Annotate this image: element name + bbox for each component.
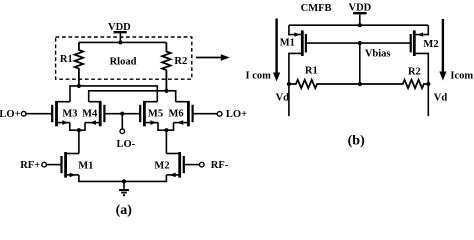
transistor M2 (b)	[411, 25, 439, 84]
current arrow Icom (right)	[439, 19, 473, 82]
node: R1 / out+ junction	[77, 84, 81, 88]
wire: M3/M4 common source to M1 drain	[70, 123, 85, 154]
svg-text:(b): (b)	[348, 134, 365, 149]
resistor R1 (a)	[60, 42, 83, 86]
node: VDD rail junction (a)	[118, 40, 122, 44]
node: right drain / R2 junction	[426, 82, 430, 86]
svg-text:M3: M3	[62, 108, 77, 119]
transistor M4	[82, 101, 104, 126]
svg-text:I com: I com	[246, 70, 272, 81]
svg-text:R2: R2	[408, 66, 421, 77]
wire: gate line M1-M2 (b)	[306, 42, 412, 44]
wire: right Vd output	[427, 84, 429, 116]
resistor R2 (a)	[162, 42, 187, 90]
svg-text:RF-: RF-	[211, 160, 229, 171]
wire: tail rail M1/M2 sources	[79, 175, 166, 182]
svg-text:Vd: Vd	[434, 92, 448, 103]
arrow: output to CMFB	[196, 54, 230, 60]
svg-text:Icom: Icom	[450, 71, 473, 82]
svg-text:RF+: RF+	[20, 160, 40, 171]
transistor M6	[169, 101, 193, 126]
Rload dashed box	[56, 37, 192, 79]
node: gate line / Vbias junction	[358, 41, 362, 45]
node: M3/M4 source junction	[77, 128, 81, 132]
transistor M1 (b)	[280, 25, 306, 84]
VDD supply symbol (b)	[349, 2, 372, 25]
current arrow Icom (left)	[246, 19, 281, 82]
svg-text:R2: R2	[174, 56, 187, 67]
resistor R2 (b)	[360, 66, 429, 88]
wire: left Vd output	[288, 84, 290, 116]
svg-text:M1: M1	[280, 37, 295, 48]
svg-text:CMFB: CMFB	[301, 3, 332, 14]
node: ground junction	[122, 179, 126, 183]
wire: M5/M6 common source to M2 drain	[158, 123, 174, 154]
svg-text:Vbias: Vbias	[365, 49, 391, 60]
svg-text:R1: R1	[60, 54, 73, 65]
node: R2 / out- junction	[164, 89, 168, 93]
terminal RF-	[184, 160, 229, 171]
ground	[119, 181, 129, 195]
resistor R1 (b)	[289, 65, 360, 88]
wire: out- node to M4 and M6 drains	[89, 91, 176, 102]
transistor M3	[52, 101, 77, 126]
terminal RF+	[20, 160, 61, 171]
svg-text:Vd: Vd	[276, 92, 290, 103]
svg-text:LO+: LO+	[226, 109, 247, 120]
wire: LO- gate line M4 to M5	[104, 113, 140, 115]
svg-text:LO+: LO+	[0, 109, 21, 120]
svg-text:(a): (a)	[116, 203, 133, 218]
wire: VDD rail (b)	[289, 24, 428, 26]
node: left drain / R1 junction	[287, 82, 291, 86]
node: LO- junction	[120, 112, 124, 116]
node: M5/M6 source junction	[164, 128, 168, 132]
wire: out+ node to M3 and M5 drains	[70, 86, 157, 102]
svg-text:M2: M2	[154, 161, 169, 172]
svg-text:M5: M5	[148, 108, 163, 119]
wire: VDD rail (a)	[79, 41, 166, 43]
terminal LO+ (right)	[193, 109, 247, 120]
node: Vbias / R1-R2 junction	[358, 82, 362, 86]
VDD supply symbol (a)	[108, 22, 131, 43]
transistor M1	[62, 152, 94, 178]
svg-text:Rload: Rload	[110, 56, 137, 67]
terminal LO+ (left)	[0, 109, 52, 120]
terminal LO-	[116, 114, 135, 150]
svg-text:R1: R1	[305, 65, 318, 76]
svg-text:VDD: VDD	[349, 2, 372, 13]
svg-text:M4: M4	[82, 108, 98, 119]
svg-text:M6: M6	[169, 108, 184, 119]
transistor M2	[154, 152, 183, 178]
svg-text:M2: M2	[423, 39, 438, 50]
wire: Vbias vertical	[359, 43, 361, 84]
svg-text:M1: M1	[78, 161, 93, 172]
svg-text:LO-: LO-	[116, 139, 135, 150]
node: VDD rail junction (b)	[358, 23, 362, 27]
transistor M5	[140, 101, 163, 126]
